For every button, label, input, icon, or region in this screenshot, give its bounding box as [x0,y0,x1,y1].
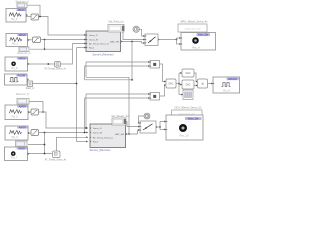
svg-text:AWGN: AWGN [18,147,25,150]
svg-text:Video_Dis: Video_Dis [198,35,209,37]
svg-text:AT_Thrust_Servo_D: AT_Thrust_Servo_D [93,136,113,139]
svg-text:AT_Thrust_Servo_D: AT_Thrust_Servo_D [89,43,109,46]
svg-text:Band-Lim_N: Band-Lim_N [18,53,31,55]
svg-text:Video_Dis: Video_Dis [188,118,200,121]
svg-text:AWGN: AWGN [17,9,24,12]
svg-text:AT_Thrust_Servo_4x: AT_Thrust_Servo_4x [44,67,66,70]
svg-text:DAC: DAC [186,84,191,87]
svg-text:Ru_1: Ru_1 [12,42,19,45]
svg-text:Ru_8: Ru_8 [223,88,230,92]
svg-text:DAC: DAC [169,83,174,86]
svg-text:Set_Stream_Go: Set_Stream_Go [111,115,129,118]
svg-text:AWGN: AWGN [19,105,26,108]
svg-text:▥: ▥ [201,83,203,86]
svg-text:AWGN: AWGN [18,57,25,60]
svg-text:PULSE: PULSE [18,75,26,77]
svg-text:Servo4_(Reverse): Servo4_(Reverse) [92,52,113,56]
svg-text:DAC_GH: DAC_GH [115,133,125,136]
svg-text:DAC_GH: DAC_GH [110,41,120,44]
svg-text:Pu_5: Pu_5 [11,81,17,84]
svg-text:Ru_7: Ru_7 [11,156,18,159]
svg-text:Rack_G: Rack_G [26,88,35,90]
svg-text:Ru_3: Ru_3 [12,136,19,139]
svg-text:Ru_6: Ru_6 [11,67,18,70]
svg-text:MPU_Whole_Servo_4x: MPU_Whole_Servo_4x [181,20,209,24]
svg-text:Servo2_(Reverse): Servo2_(Reverse) [89,148,110,152]
svg-text:Rec_4: Rec_4 [192,45,200,49]
svg-text:DAC: DAC [186,72,191,75]
svg-text:Band-Lim_N: Band-Lim_N [16,94,29,96]
svg-text:Servo_W: Servo_W [93,132,103,135]
svg-text:Set_Point_(x): Set_Point_(x) [108,21,123,24]
svg-text:Servo_D: Servo_D [89,34,98,37]
svg-text:ADC/AC: ADC/AC [228,78,237,81]
svg-text:AT_Thrust_Servo_4x: AT_Thrust_Servo_4x [45,159,67,162]
svg-text:Servo_W: Servo_W [89,39,99,42]
svg-text:Servo_D: Servo_D [93,127,102,130]
svg-text:AWGN: AWGN [19,34,26,37]
svg-text:Ru_2: Ru_2 [12,115,19,118]
svg-text:AWGN: AWGN [19,126,26,129]
svg-text:Rec_10: Rec_10 [180,133,189,137]
svg-text:DCV_Wheel_Servo_(2): DCV_Wheel_Servo_(2) [174,105,201,109]
svg-text:Ru_4: Ru_4 [11,18,18,21]
svg-text:whole servo spd: whole servo spd [185,27,202,30]
